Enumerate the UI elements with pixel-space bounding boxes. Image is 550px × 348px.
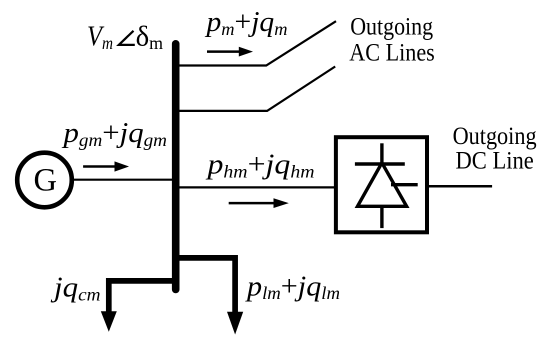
svg-text:G: G: [33, 162, 56, 198]
svg-text:δm: δm: [136, 20, 164, 53]
svg-text:pm+jqm: pm+jqm: [204, 6, 287, 39]
svg-text:pgm+jqgm: pgm+jqgm: [61, 117, 167, 150]
svg-text:phm+jqhm: phm+jqhm: [205, 149, 314, 182]
svg-text:plm+jqlm: plm+jqlm: [245, 270, 340, 303]
svg-text:Outgoing: Outgoing: [350, 12, 433, 41]
svg-text:AC Lines: AC Lines: [349, 37, 435, 66]
svg-text:Vm: Vm: [87, 20, 113, 53]
svg-text:jqcm: jqcm: [50, 272, 101, 305]
svg-text:DC Line: DC Line: [456, 146, 534, 175]
